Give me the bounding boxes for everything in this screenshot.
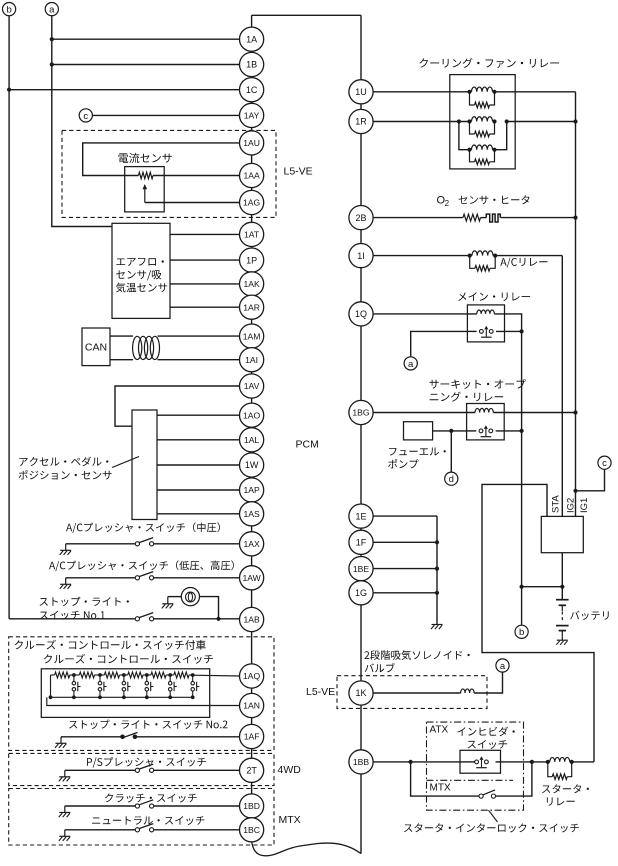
cruise ladder bottom junctions [49,695,195,699]
O2 heater resistor [463,214,481,221]
wire 1AY [92,114,239,116]
A/C relay coil [468,251,498,258]
wire 1AR [170,306,240,308]
ATX/MTX dash-dot enclosure [427,722,524,810]
svg-text:1P: 1P [246,255,257,265]
terminal 1AI [240,348,264,372]
PCM label [296,438,319,450]
neutral switch [135,824,153,832]
svg-text:1AQ: 1AQ [243,671,261,681]
stop light switch No.1 label [40,597,129,620]
circuit opening relay contact [467,425,524,436]
A/C pressure switch (low,high) label [49,560,234,571]
wire circuit opening relay coil to right rail [493,410,577,414]
svg-text:b: b [6,5,11,16]
wire 1AB [154,618,240,620]
svg-text:1G: 1G [355,588,367,598]
4WD dashed enclosure [9,753,274,785]
neutral switch wire left [65,829,136,831]
STA wire from ignition switch around to starter relay [482,484,594,762]
wire 1AV [115,386,240,426]
terminal 1BG [349,400,373,424]
MTX label [279,814,301,826]
fuel pump label [388,448,446,469]
svg-text:STA: STA [551,495,562,513]
svg-text:1AO: 1AO [243,410,261,420]
circuit opening relay coil [475,408,493,412]
terminal 1AB [240,607,264,631]
CAN twisted pair wires [110,336,240,360]
cruise switch 2 [98,675,106,697]
P/S pressure switch [135,764,153,772]
stop light bulb ground [162,597,174,609]
battery rail wire down from main relay [521,331,523,586]
wire 1AT [170,233,240,235]
cruise control switch label [44,654,213,664]
L5-VE dashed enclosure (solenoid) [337,676,487,709]
svg-text:PCM: PCM [296,438,319,450]
A/C pressure switch (mid) wire left [66,543,136,545]
IG1 label [579,498,590,513]
svg-text:1I: 1I [357,251,365,261]
wire 1BG [373,412,475,414]
svg-text:ATX: ATX [430,725,449,736]
IG2 rail wire down to ignition switch [561,256,563,517]
terminal 1F [349,530,373,554]
inhibitor switch label [457,727,514,749]
wire 1P [170,259,240,261]
svg-text:1AW: 1AW [242,573,261,583]
cruise switch 3 [122,675,130,697]
L5-VE label [284,166,313,178]
main relay coil wire to contact junction [494,314,521,332]
svg-text:2B: 2B [355,213,366,223]
svg-text:c: c [602,458,607,469]
starter interlock pointer line [489,810,498,822]
svg-text:1C: 1C [246,85,258,95]
cruise ladder left wall [50,675,52,697]
starter relay label [542,784,589,805]
terminal 1AT [240,222,264,246]
terminal 1AM [240,324,264,348]
node a (main relay) [404,357,417,370]
terminal 1AK [240,272,264,296]
wire 1Q [373,313,477,315]
terminal 1B [240,52,264,76]
wire ignition switch to battery [560,553,564,589]
wire 1G [373,592,437,594]
accel pedal position sensor box [132,410,157,520]
clutch switch wire left [65,805,136,807]
MTX dashed enclosure [9,789,274,846]
wire 1AN [47,697,240,705]
wire starter relay to STA feed [572,761,594,763]
wire A/C relay to IG2 rail [495,255,562,257]
PCM module outline [252,15,361,856]
svg-text:a: a [49,5,55,16]
wire down to node b [521,587,523,626]
P/S pressure switch wire left [65,769,136,771]
L5-VE label (solenoid) [306,686,335,698]
cruise ladder top rail resistors [51,672,193,678]
circuit opening relay box [467,404,505,440]
battery ground [556,636,568,645]
svg-text:1AF: 1AF [244,732,260,742]
svg-text:1AB: 1AB [243,615,260,625]
terminal 1BC [240,818,264,842]
junction at 1AB wire [216,617,220,621]
terminal 1Q [349,302,373,326]
wire 1AA [153,175,240,177]
terminal 1U [349,80,373,104]
terminal 1AG [240,190,264,214]
wire 1B [52,64,240,66]
wire from node a down to airflow sensor [52,16,112,227]
cooling fan relay box [450,75,515,169]
svg-text:1AL: 1AL [244,435,260,445]
airflow sensor box [112,223,170,318]
inhibitor switch box [460,750,501,773]
cruise control switch box [41,669,209,718]
svg-text:1BB: 1BB [353,757,370,767]
svg-text:1AI: 1AI [245,355,258,365]
A/C pressure switch (mid) ground [60,544,71,555]
neutral switch label [92,816,205,825]
svg-text:1AM: 1AM [243,331,261,341]
current sensor tap arrow [143,184,148,203]
STA label [551,495,562,513]
circuit opening relay label [429,379,525,402]
svg-text:2: 2 [445,199,450,208]
4WD label [278,764,302,776]
wire to node d [450,431,452,472]
terminal 1I [349,244,373,268]
stop light bulb wire right [200,597,219,619]
svg-text:1Q: 1Q [355,309,367,319]
svg-text:a: a [408,359,414,370]
wire 1A [52,38,240,40]
svg-text:1F: 1F [356,538,367,548]
wire 1BE [373,568,437,570]
airflow sensor label [116,258,167,293]
solenoid coil [461,689,475,693]
ground bus vertical [435,516,439,624]
neutral switch ground [59,830,71,841]
MTX clutch interlock switch [479,790,496,798]
stop light switch No.2 ground [55,737,67,748]
junction on node-b line at 1C [7,88,11,92]
wire 1AK [170,283,240,285]
wire 1AX [154,543,240,545]
battery label [570,611,609,620]
terminal 1A [240,27,264,51]
terminal 1P [240,248,264,272]
wire 1U to right rail [495,91,576,93]
stop light switch No.1 wire from node b line [9,618,135,620]
CAN box [82,328,110,366]
node a [45,3,58,16]
wire 1R [373,121,469,123]
wire 1BD [154,805,240,807]
fan relay coil 1 [467,87,496,94]
wire O2 heater to right rail [501,216,578,220]
cruise switch 6 [191,675,199,697]
svg-text:IG2: IG2 [566,498,577,513]
cruise switch 5 [168,675,176,697]
fan relay coil 3 [467,145,496,152]
junction on node-a line at 1B [50,62,54,66]
junction on node-a line at 1A [50,37,54,41]
terminal 1AU [240,131,264,155]
terminal 1AS [240,502,264,526]
wire 1AF [136,736,240,738]
clutch switch [135,800,153,808]
terminal 1AX [240,532,264,556]
accel pedal position sensor label [19,457,112,480]
O2 sensor heater label [437,195,530,208]
O2 heater element [481,214,501,222]
node c (ignition) [598,456,611,469]
svg-text:1AG: 1AG [243,198,261,208]
IG2 label [566,498,577,513]
wire 1AP [157,489,240,491]
terminal 1K [349,681,373,705]
clutch switch label [105,793,197,802]
wire 1E [373,515,437,517]
current sensor label [119,153,172,163]
svg-text:1AU: 1AU [243,138,260,148]
inhibitor switch contact [460,756,501,767]
current sensor shunt resistor [138,172,153,178]
wire solenoid to node a [474,672,502,693]
svg-text:1AA: 1AA [243,171,260,181]
wire 1F [373,541,437,543]
wire fuel pump to contact [433,429,467,433]
stop light switch No.1 [135,613,153,621]
svg-text:IG1: IG1 [579,498,590,513]
fan relay resistor 2 [470,122,495,137]
svg-text:1AT: 1AT [244,230,260,240]
stop light switch No.2 label [69,720,228,729]
wire 1AW [154,577,240,579]
terminal 1AR [240,295,264,319]
svg-text:1R: 1R [355,117,367,127]
stop light switch No.2 (closed) [120,732,137,739]
wire 1AO [157,414,240,416]
terminal 1AW [240,566,264,590]
node b [3,3,16,16]
stop light bulb wire left [168,596,181,598]
wire 1AU to current sensor [83,143,240,176]
wire node c to IG1 rail [573,469,604,493]
svg-text:1AS: 1AS [243,509,260,519]
wire 2B [373,217,463,219]
L5-VE dashed enclosure (current sensor) [62,130,276,217]
terminal 1AY [240,103,264,127]
MTX label (interlock) [430,783,451,794]
wire 1AS [157,513,240,515]
svg-text:a: a [500,661,506,672]
svg-text:c: c [83,111,88,122]
fan relay coil 2 [457,117,509,124]
cruise switch 1 [72,675,80,697]
cruise control dashed enclosure [9,637,274,751]
cruise ladder bottom rail [51,696,193,698]
svg-text:1AR: 1AR [243,302,260,312]
svg-text:1U: 1U [355,87,367,97]
terminal 2B [349,206,373,230]
node b (battery) [515,625,528,638]
terminal 1AO [240,403,264,427]
wire 2T [154,769,240,771]
terminal 1G [349,581,373,605]
node a (solenoid) [496,659,509,672]
MTX branch wire up [496,762,532,796]
accel sensor pointer line [112,457,139,468]
svg-text:d: d [449,474,454,485]
wire 1AQ [193,674,240,677]
A/C pressure switch (low,high) [135,572,153,580]
right rail wire from 1U to ignition switch IG1 [575,92,577,517]
A/C pressure switch (low,high) ground [60,578,71,589]
ground (PCM grounds) [431,624,443,629]
wire 1I [373,255,470,257]
svg-text:1BC: 1BC [243,825,260,835]
wire 1C [9,89,239,91]
wire 1AL [157,439,240,441]
wire 1BC [154,829,240,831]
svg-text:1AV: 1AV [244,381,260,391]
terminal 1BB [349,750,373,774]
A/C pressure switch (mid) [135,538,153,546]
terminal 1AA [240,163,264,187]
wire 1BB [373,760,460,764]
svg-text:CAN: CAN [85,341,107,353]
svg-text:1BE: 1BE [353,564,370,574]
A/C relay label [500,258,547,268]
svg-text:MTX: MTX [430,783,451,794]
svg-text:1K: 1K [355,688,366,698]
wire 1R to right rail [507,119,578,123]
terminal 1C [240,78,264,102]
CAN twisted pair loops [133,336,160,359]
svg-text:1BD: 1BD [243,801,260,811]
starter relay coil [546,757,574,764]
svg-text:1E: 1E [355,511,366,521]
wire battery junction to node b rail [520,585,563,589]
terminal 1AV [240,374,264,398]
P/S pressure switch ground [59,770,71,781]
stop light switch No.2 wire left [61,736,121,738]
CAN label [85,341,107,353]
current sensor box [125,167,165,212]
terminal 1AP [240,478,264,502]
fan relay resistor 3 [470,150,495,165]
cooling fan relay label [420,58,560,68]
ignition switch box [541,516,583,552]
svg-text:4WD: 4WD [278,764,302,776]
svg-text:1AX: 1AX [243,539,260,549]
fan relay 3 branch wires [459,122,507,150]
svg-text:1BG: 1BG [352,408,370,418]
svg-text:1AN: 1AN [243,701,260,711]
node d [445,472,458,485]
node c [79,109,92,122]
terminal 1AN [240,693,264,717]
cruise control equipped car label [15,640,206,650]
svg-text:L5-VE: L5-VE [284,166,313,178]
terminal 1BE [349,557,373,581]
P/S pressure switch label [87,757,206,768]
A/C pressure switch (low,high) wire left [66,577,136,579]
fuel pump box [404,422,433,440]
starter relay resistor [548,762,572,780]
terminal 1AF [240,724,264,748]
main relay coil [477,310,495,314]
wire inhibitor to starter relay [501,760,548,764]
ATX/MTX divider dash-dot line [427,779,514,781]
main relay contact wire to node a [411,331,468,356]
main relay label [458,292,530,301]
terminal 1AL [240,428,264,452]
terminal 1E [349,504,373,528]
clutch switch ground [59,806,71,817]
battery [556,587,569,637]
main relay contact [467,326,523,337]
wire 1W [157,464,240,466]
svg-text:L5-VE: L5-VE [306,686,335,698]
MTX branch wire [411,762,479,796]
ATX label [430,725,449,736]
starter interlock switch label [404,823,579,832]
terminal 2T [240,758,264,782]
wire 1U [373,91,469,93]
fan relay resistor 1 [470,92,495,108]
main relay box [467,305,504,342]
svg-text:1B: 1B [246,60,257,70]
2-stage intake solenoid valve label [364,650,469,672]
wire from node b down left margin [8,16,10,619]
cruise switch 4 [145,675,153,697]
terminal 1BD [240,794,264,818]
svg-text:2T: 2T [246,766,257,776]
svg-text:1W: 1W [245,460,259,470]
svg-text:MTX: MTX [279,814,301,826]
terminal 1W [240,453,264,477]
svg-text:1AP: 1AP [243,485,260,495]
terminal 1AQ [240,664,264,688]
svg-text:1A: 1A [246,34,257,44]
wire 1K [373,692,461,694]
A/C pressure switch (mid) label [66,522,220,533]
wire 1AG [145,202,240,204]
stop light bulb [181,588,199,606]
svg-text:1AY: 1AY [244,111,260,121]
A/C relay resistor [470,256,496,272]
terminal 1R [349,109,373,133]
svg-text:b: b [519,627,524,638]
cruise ladder top junctions [72,673,195,677]
svg-text:1AK: 1AK [243,279,260,289]
